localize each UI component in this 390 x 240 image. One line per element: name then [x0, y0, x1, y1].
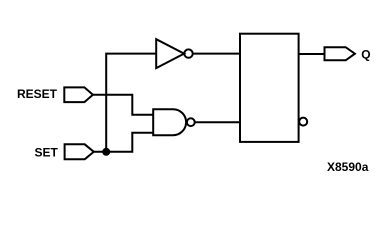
- inverter U1 output bubble: [184, 49, 192, 57]
- output port Q: [325, 47, 355, 60]
- inverter U1 triangle: [156, 39, 184, 68]
- input port SET: [65, 144, 94, 159]
- input port RESET: [64, 87, 93, 102]
- latch box U3: [240, 34, 299, 142]
- wire latch box to output port Q: [299, 53, 325, 55]
- latch box inverted output bubble: [299, 118, 307, 126]
- wire junction to inverter input: [106, 54, 155, 152]
- wire RESET to NAND top input: [93, 95, 153, 115]
- node junction dot on SET wire: [102, 148, 110, 156]
- NAND gate U2 body: [153, 109, 186, 135]
- svg-text:X8590a: X8590a: [327, 160, 369, 174]
- wire NAND output to latch box: [195, 121, 240, 123]
- wire inverter output to latch box: [193, 53, 240, 55]
- svg-text:SET: SET: [35, 146, 59, 160]
- wire SET to NAND bottom input: [94, 133, 153, 152]
- svg-text:Q: Q: [361, 47, 370, 61]
- NAND gate U2 output bubble: [187, 118, 195, 126]
- svg-text:RESET: RESET: [17, 87, 58, 101]
